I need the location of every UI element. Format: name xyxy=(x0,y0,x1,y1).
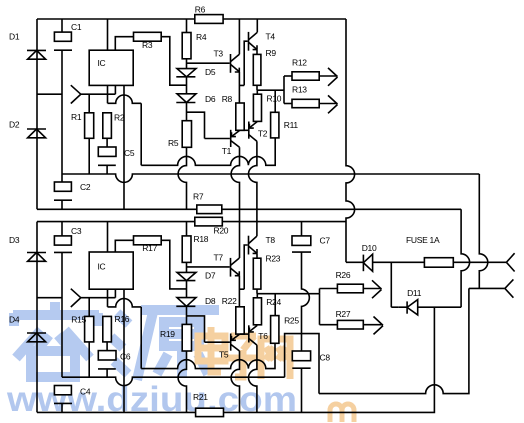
svg-text:C1: C1 xyxy=(71,22,82,32)
svg-text:R21: R21 xyxy=(193,392,208,402)
transistor T8 xyxy=(248,236,250,255)
svg-text:R15: R15 xyxy=(71,315,86,325)
svg-text:T8: T8 xyxy=(266,235,276,245)
svg-text:R24: R24 xyxy=(266,297,281,307)
diode D7 xyxy=(177,272,196,280)
resistor R8 xyxy=(236,103,244,130)
R26 jog wire xyxy=(320,289,338,294)
fuse wire xyxy=(346,261,363,263)
transistor T2 xyxy=(248,122,250,139)
IC2 pin B wire xyxy=(114,289,116,298)
resistor R23 xyxy=(253,258,261,289)
arrow output R13 xyxy=(319,95,337,113)
diode D1 xyxy=(27,49,46,51)
svg-text:C5: C5 xyxy=(124,148,135,158)
svg-text:D2: D2 xyxy=(9,120,20,130)
IC pin C vertical to rail C xyxy=(123,85,125,209)
rail B drop vertical with bulge over fuse wire xyxy=(479,174,487,288)
rail B2 with dip under pin C xyxy=(62,377,285,385)
IC pin A wire xyxy=(107,85,109,103)
svg-text:R20: R20 xyxy=(214,225,229,235)
resistor R7 xyxy=(197,205,222,214)
svg-text:T5: T5 xyxy=(219,350,229,360)
resistor R26 xyxy=(337,284,363,293)
svg-text:R19: R19 xyxy=(160,329,175,339)
left vertical bottom block xyxy=(36,222,38,413)
rail C drop vertical with bulge over fuse wire xyxy=(461,209,469,307)
svg-text:R26: R26 xyxy=(336,270,351,280)
watermark blue char RONG xyxy=(13,302,99,377)
wire T4 emitter to R9 xyxy=(256,50,258,55)
T7 base wire xyxy=(187,266,230,268)
top rail +V top block xyxy=(37,18,346,20)
resistor R24 xyxy=(256,294,258,298)
svg-text:R5: R5 xyxy=(168,138,179,148)
resistor R17 xyxy=(134,236,162,245)
svg-text:R9: R9 xyxy=(266,48,277,58)
svg-text:R2: R2 xyxy=(114,113,125,123)
svg-text:D6: D6 xyxy=(205,94,216,104)
wire pin A to rail A xyxy=(140,103,142,165)
watermark orange char DIAN xyxy=(198,327,225,372)
svg-text:R6: R6 xyxy=(195,5,206,15)
connector plug bottom input xyxy=(71,289,81,307)
svg-text:C3: C3 xyxy=(71,226,82,236)
junction wire R23 bottom xyxy=(257,289,320,294)
diode D3 xyxy=(27,252,46,254)
resistor R18 xyxy=(186,222,188,236)
svg-text:R7: R7 xyxy=(193,192,204,202)
svg-text:IC: IC xyxy=(98,262,106,272)
capacitor C4 xyxy=(54,386,71,395)
diode D5 xyxy=(177,69,196,77)
IC U1 box xyxy=(89,50,133,85)
svg-text:R22: R22 xyxy=(222,296,237,306)
transistor T7 xyxy=(230,258,232,277)
rail A2 with hops xyxy=(141,343,275,368)
arrow output R27 xyxy=(363,317,383,335)
svg-text:R10: R10 xyxy=(267,94,282,104)
capacitor C2 xyxy=(54,182,71,191)
wire D5 to D6 xyxy=(186,77,188,94)
connector output 1 xyxy=(506,253,514,271)
IC2 top pin wire xyxy=(107,222,109,252)
svg-text:R8: R8 xyxy=(222,94,233,104)
IC pin B wire xyxy=(114,85,116,94)
rail B2 detour around C8 xyxy=(285,334,319,394)
transistor T4 xyxy=(248,32,250,51)
svg-text:R13: R13 xyxy=(292,85,307,95)
diode D2 xyxy=(27,128,46,130)
capacitor C6 xyxy=(98,351,116,360)
fuse FUSE 1A xyxy=(424,258,453,268)
resistor R21 xyxy=(196,408,224,416)
wire pin A to rail A2 xyxy=(140,307,142,369)
svg-text:D11: D11 xyxy=(407,288,422,298)
resistor R16 xyxy=(103,316,112,342)
svg-text:T1: T1 xyxy=(222,146,232,156)
connector plug top input xyxy=(71,85,81,103)
svg-text:T6: T6 xyxy=(258,331,268,341)
right boundary vertical with bulges over rails B and C xyxy=(346,19,355,262)
watermark orange char ZI xyxy=(228,336,259,377)
svg-text:C8: C8 xyxy=(320,353,331,363)
wire T7 emitter to R22 with T8 base jog xyxy=(239,276,244,307)
svg-text:D8: D8 xyxy=(205,296,216,306)
rail E with hop xyxy=(319,288,469,393)
svg-text:D10: D10 xyxy=(362,243,377,253)
R27 tie wire xyxy=(320,294,338,325)
wire D6 to R5 with T1 base tap xyxy=(186,103,188,121)
wire plug to IC xyxy=(81,93,116,95)
wire C1 to rail B xyxy=(61,50,63,174)
T1 base link to D6 R5 node xyxy=(187,112,205,138)
svg-text:C7: C7 xyxy=(320,235,331,245)
wire R5 down bulge over rail B to rail C xyxy=(178,147,186,209)
diode D11 xyxy=(406,301,408,313)
svg-text:D3: D3 xyxy=(9,235,20,245)
wire output 2 xyxy=(469,287,505,289)
wire C7 down with bulge over junction wire xyxy=(302,252,310,334)
svg-text:C2: C2 xyxy=(80,182,91,192)
svg-text:R23: R23 xyxy=(266,254,281,264)
capacitor C1 xyxy=(61,19,63,32)
svg-text:C6: C6 xyxy=(120,352,131,362)
svg-text:R1: R1 xyxy=(71,112,82,122)
resistor R19 xyxy=(182,324,191,351)
svg-text:R11: R11 xyxy=(284,120,299,130)
resistor R20 xyxy=(195,217,223,226)
left vertical top block xyxy=(36,19,38,209)
resistor R4 xyxy=(186,19,188,33)
wire T5 collector down bulge to bottom rail xyxy=(231,351,239,412)
transistor T3 xyxy=(230,54,232,73)
resistor R22 xyxy=(236,307,244,334)
bottom rail with R21 xyxy=(37,411,196,413)
IC2 pin C vertical to bottom rail xyxy=(123,289,125,412)
transistor T1 xyxy=(230,130,232,147)
IC U2 box xyxy=(89,252,133,289)
capacitor C3 xyxy=(61,222,63,236)
diode D4 xyxy=(27,332,46,334)
svg-text:T7: T7 xyxy=(214,253,224,263)
resistor R1 xyxy=(88,94,90,113)
svg-text:R4: R4 xyxy=(196,32,207,42)
rail D with R20 xyxy=(37,221,195,223)
diode D10 xyxy=(362,255,364,272)
resistor R3 xyxy=(134,32,162,41)
resistor R6 on top rail xyxy=(195,15,223,24)
svg-text:R16: R16 xyxy=(115,314,130,324)
diode D6 xyxy=(177,94,196,103)
resistor R2 xyxy=(103,113,112,139)
transistor T6 xyxy=(248,325,250,342)
svg-text:D5: D5 xyxy=(205,67,216,77)
resistor R27 xyxy=(337,320,363,329)
resistor R15 xyxy=(88,298,90,317)
resistor R11 xyxy=(274,90,276,112)
capacitor C7 xyxy=(301,222,303,236)
wire plug to IC bottom xyxy=(81,297,116,299)
T5 base link to D8 R19 node xyxy=(187,316,205,342)
junction wire R9 bottom xyxy=(257,85,284,90)
svg-text:R17: R17 xyxy=(142,243,157,253)
resistor R9 xyxy=(253,54,261,85)
svg-text:T4: T4 xyxy=(266,32,276,42)
capacitor C8 xyxy=(301,334,303,351)
rail C with R7 xyxy=(37,208,197,210)
connector output 2 xyxy=(505,279,514,297)
svg-text:T2: T2 xyxy=(258,129,268,139)
wire AC input node bottom xyxy=(37,297,62,299)
wire T1 collector down to T7 collector xyxy=(231,147,239,258)
svg-text:R27: R27 xyxy=(336,309,351,319)
watermark orange fragment bottom right xyxy=(330,404,354,422)
R12 R13 tie connector xyxy=(283,76,285,104)
svg-text:FUSE 1A: FUSE 1A xyxy=(406,235,440,245)
arrow output R12 xyxy=(319,68,337,86)
wire AC input node top xyxy=(37,93,62,95)
transistor T5 xyxy=(230,334,232,351)
resistor R5 xyxy=(182,121,191,148)
wire pin A horizontal with hop over pin C xyxy=(108,95,142,103)
rail B with dip under pin C xyxy=(62,174,479,182)
watermark blue char YUAN xyxy=(111,310,219,380)
wire R19 down bulge over rail B2 to bottom rail xyxy=(178,351,186,412)
wire R22 bottom to T6 base xyxy=(240,333,248,335)
diode D8 xyxy=(177,298,196,307)
svg-text:D1: D1 xyxy=(9,32,20,42)
svg-text:R25: R25 xyxy=(284,316,299,326)
svg-text:C4: C4 xyxy=(80,386,91,396)
wire D10 junction drop xyxy=(391,262,398,307)
resistor R10 xyxy=(256,90,258,94)
svg-text:T3: T3 xyxy=(214,48,224,58)
svg-text:R18: R18 xyxy=(194,234,209,244)
wire R8 bottom to T2 base xyxy=(240,129,248,131)
wire T8 emitter to R23 xyxy=(256,253,258,258)
wire T3 emitter to R8 with T4 base jog xyxy=(239,72,244,103)
resistor R13 xyxy=(284,103,292,105)
wire T6 collector down bulge to bottom rail xyxy=(248,345,256,412)
wire T2 collector down to T8 collector xyxy=(249,141,257,236)
capacitor C5 xyxy=(98,147,116,156)
arrow output R26 xyxy=(363,280,381,298)
resistor R12 xyxy=(284,75,292,77)
svg-text:D7: D7 xyxy=(205,271,216,281)
watermark orange char WANG xyxy=(261,339,290,379)
IC2 pin A wire xyxy=(107,289,109,307)
svg-text:IC: IC xyxy=(98,58,106,68)
resistor R25 xyxy=(274,294,276,316)
svg-text:R12: R12 xyxy=(292,58,307,68)
wire D8 to R19 with T5 base tap xyxy=(186,306,188,324)
T3 base wire xyxy=(187,62,230,64)
rail A with hops xyxy=(141,138,275,165)
svg-text:R3: R3 xyxy=(142,40,153,50)
wire pin A horizontal with hop bottom xyxy=(108,299,142,307)
IC top pin wire xyxy=(107,19,109,50)
svg-text:D4: D4 xyxy=(9,315,20,325)
